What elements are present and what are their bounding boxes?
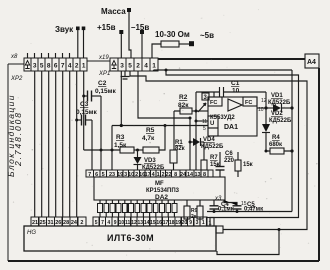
resistor R2 xyxy=(180,108,192,114)
wire 10-30 Om right lead xyxy=(179,43,189,45)
wire R2 left lead to R1 xyxy=(174,111,180,150)
node junction output xyxy=(264,106,267,109)
frame border bottom edge xyxy=(8,260,319,262)
frame border top segment between connectors xyxy=(87,60,110,62)
wire into DA1 pin11 xyxy=(196,120,208,122)
node junction pin11 wire xyxy=(195,120,198,123)
frame border left edge xyxy=(7,64,9,261)
node junction pin1-C2 xyxy=(82,95,85,98)
scan noise overlay xyxy=(0,0,1,1)
display HG pin numbers left xyxy=(32,220,83,226)
capacitor C1 feedback wire xyxy=(196,91,266,93)
node ~5v terminal xyxy=(189,41,194,46)
diode VD4 xyxy=(190,138,204,146)
resistor R8 small xyxy=(235,160,241,171)
display HG pin cells right group xyxy=(93,217,207,226)
wire R1 down to DA2 pin22 xyxy=(173,163,175,170)
resistor R8a vertical xyxy=(184,206,190,219)
wire bus XP2 pin6 down xyxy=(55,71,57,217)
node junction R4 on w1 xyxy=(290,149,293,152)
node junction VD4 xyxy=(189,141,192,144)
connector XP2 pin ticks xyxy=(28,53,70,58)
node junction C4 C5 on rail xyxy=(213,210,216,213)
wire XP2 pin1 down through C2 node to R3 line xyxy=(83,71,85,150)
node junction VD1 out on w1 xyxy=(290,106,293,109)
connector XP1 key symbol xyxy=(112,61,116,69)
connector XP2 key symbol xyxy=(25,61,29,69)
wire VD2 branch down xyxy=(265,108,267,124)
wire R7 down xyxy=(203,169,205,172)
resistor R4 xyxy=(270,148,284,154)
node junction w2 branch xyxy=(165,69,168,72)
wire below display xyxy=(217,230,279,255)
wire R4 leads xyxy=(266,150,292,152)
wires DA2 bottom to display cells xyxy=(100,200,174,217)
connector XP2 pin numbers xyxy=(33,63,86,70)
wire R3 input line xyxy=(84,149,120,151)
wire +15v rail from XP1 pin3 down xyxy=(120,71,122,126)
resistor R3 xyxy=(120,147,134,153)
node -15v terminal dot xyxy=(140,30,144,34)
connector XP1 body xyxy=(110,58,158,71)
op-amp DA1 FC cell left xyxy=(208,97,222,106)
op-amp DA1 triangle xyxy=(228,99,242,111)
wire bus XP2 pin5 down xyxy=(41,71,43,217)
display HG pin numbers right xyxy=(95,220,205,226)
resistor R5 xyxy=(143,147,159,153)
display pin cell 1 xyxy=(207,218,215,227)
IC DA2 bottom resistor array xyxy=(98,204,177,213)
wire R2 right lead to DA1 input xyxy=(192,110,208,112)
wire output bottom rail xyxy=(207,211,292,213)
wire w2 branch routed right and down to display pin xyxy=(166,70,299,226)
resistor R1 xyxy=(170,150,177,163)
wire bus XP2 pin4 down xyxy=(69,71,71,217)
wire R5 up to DA1 input line xyxy=(159,126,165,151)
capacitor C3 xyxy=(77,115,92,126)
node junction on vertical 190 xyxy=(189,117,192,120)
left side vertical designation text xyxy=(6,94,23,177)
diode VD1 xyxy=(273,104,292,112)
node +15v terminal dot xyxy=(119,30,123,34)
wire C1 to DA1 FC pin xyxy=(213,92,215,97)
ground stub under XP1 key pin xyxy=(121,71,130,79)
pin label 3 box xyxy=(202,93,209,100)
wires R8a R9 leads xyxy=(187,200,200,224)
op-amp DA1 box xyxy=(208,97,257,136)
wire C2 to DA2 pin5 xyxy=(100,96,102,170)
wire w3 from XP1 pin5 routed right and down to display box xyxy=(130,71,307,230)
resistor 10-30 Om xyxy=(161,41,179,47)
capacitor C6 xyxy=(216,152,225,177)
node junction R3-R5 xyxy=(136,149,139,152)
wire -15v to XP1 pin2 xyxy=(141,34,143,58)
diode VD3 xyxy=(134,150,142,170)
connector XP2 body xyxy=(24,58,87,71)
resistor R9 vertical xyxy=(197,206,203,219)
IC DA2 top pin numbers xyxy=(88,172,206,178)
wire bus XP2 pin7 down xyxy=(62,71,64,217)
op-amp DA1 U cell xyxy=(208,116,218,128)
wire vertical to DA2 pin24 xyxy=(189,118,191,170)
diode VD2 xyxy=(262,124,270,151)
wire Massa to XP1 pin5 xyxy=(129,12,131,58)
wire VD4 to R7 xyxy=(203,142,205,160)
wire w1 from XP1 pin1 routed right and down xyxy=(154,70,293,212)
display right extension cell xyxy=(216,226,223,233)
node junction below-display wire on w3 xyxy=(278,228,281,231)
op-amp DA1 FC cell right xyxy=(243,97,257,106)
wire DA1 U supply line xyxy=(112,126,208,171)
wire 10-30 Om left lead to XP1 pin1 xyxy=(152,44,161,58)
wire Zvuk to XP2 pin1 xyxy=(83,30,85,58)
wire DA1 output xyxy=(257,107,273,109)
frame border top-left stub xyxy=(8,63,24,65)
wire -15v rail from XP1 pin2 xyxy=(138,71,190,118)
IC DA2 box xyxy=(94,177,225,200)
display HG pin cells left group xyxy=(31,217,86,226)
capacitor C1 xyxy=(220,87,224,98)
node junction C3 on pin2 bus xyxy=(75,119,78,122)
node junction dots on R3 line xyxy=(100,149,103,152)
node junction R2 out xyxy=(195,110,198,113)
node Massa terminal dot xyxy=(127,8,131,12)
frame border top-right segment xyxy=(158,58,305,60)
wire bus XP2 pin2 down xyxy=(76,71,78,217)
wire Zvuk to XP2 pin2 xyxy=(77,30,79,58)
wire C1 down to output xyxy=(265,92,267,108)
connector XP1 pin numbers xyxy=(120,63,156,70)
wire +15v to XP1 pin3 xyxy=(120,34,122,58)
wire vertical feedback to DA2 pin14 xyxy=(195,92,197,170)
IC DA2 top pin cells xyxy=(86,170,213,177)
capacitor C5 xyxy=(224,200,242,212)
display tube HG box xyxy=(24,226,216,251)
node Zvuk terminal dots xyxy=(76,27,80,31)
arrow into DA1 FC xyxy=(198,103,206,112)
capacitor C2 xyxy=(84,91,101,102)
resistor R7 xyxy=(201,160,207,170)
node junction VD2-R4 xyxy=(265,150,268,153)
wire C3 to DA2 pin7 xyxy=(91,120,93,170)
wire R3 to R5 xyxy=(134,149,143,151)
capacitor C4 xyxy=(210,200,219,212)
node junction R5 line xyxy=(164,124,167,127)
wire R8 stubs xyxy=(237,152,239,177)
wire bus XP2 pin3 down xyxy=(34,71,36,217)
wire bus XP2 pin8 down xyxy=(48,71,50,217)
title block A4 box xyxy=(305,54,319,68)
frame border right edge xyxy=(318,68,320,261)
node junction +15v on U wire xyxy=(120,124,123,127)
op-amp DA1 inh cell xyxy=(208,128,218,136)
